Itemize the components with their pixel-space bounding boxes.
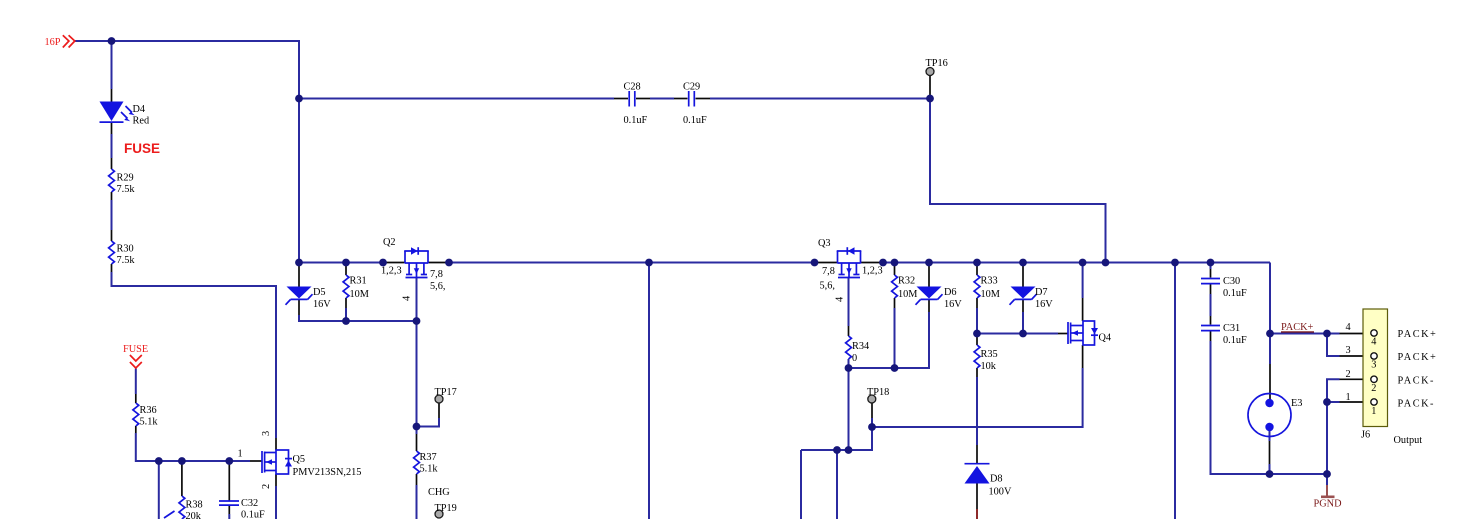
svg-text:C30: C30 (1223, 276, 1240, 287)
svg-text:R35: R35 (981, 349, 998, 360)
svg-text:5.1k: 5.1k (140, 417, 159, 428)
svg-text:C28: C28 (624, 82, 641, 93)
svg-text:10k: 10k (981, 361, 997, 372)
svg-text:5,6,: 5,6, (430, 281, 445, 292)
svg-text:0.1uF: 0.1uF (1223, 335, 1247, 346)
svg-text:10M: 10M (981, 289, 1000, 300)
svg-text:D7: D7 (1035, 287, 1048, 298)
svg-text:R29: R29 (117, 173, 134, 184)
svg-text:Output: Output (1394, 435, 1423, 446)
svg-text:10M: 10M (350, 289, 369, 300)
svg-text:C31: C31 (1223, 323, 1240, 334)
svg-text:7,8: 7,8 (430, 269, 443, 280)
svg-text:0.1uF: 0.1uF (683, 115, 707, 126)
svg-text:R38: R38 (186, 500, 203, 511)
svg-text:10M: 10M (898, 289, 917, 300)
svg-text:0.1uF: 0.1uF (241, 510, 265, 519)
svg-text:PACK-: PACK- (1398, 399, 1435, 410)
svg-text:16P: 16P (45, 37, 61, 48)
svg-text:C29: C29 (683, 82, 700, 93)
svg-text:0.1uF: 0.1uF (624, 115, 648, 126)
svg-text:4: 4 (402, 296, 413, 301)
svg-text:PMV213SN,215: PMV213SN,215 (293, 467, 362, 478)
svg-text:2: 2 (1346, 369, 1351, 380)
svg-text:16V: 16V (1035, 299, 1053, 310)
svg-text:Q4: Q4 (1099, 333, 1112, 344)
svg-text:CHG: CHG (428, 487, 450, 498)
svg-text:4: 4 (835, 297, 846, 302)
svg-text:D5: D5 (313, 287, 326, 298)
svg-text:TP17: TP17 (435, 387, 457, 398)
svg-text:3: 3 (261, 431, 272, 436)
svg-text:7,8: 7,8 (822, 266, 835, 277)
svg-text:1: 1 (238, 449, 243, 460)
svg-text:2: 2 (261, 484, 272, 489)
svg-text:FUSE: FUSE (123, 344, 148, 355)
svg-text:1,2,3: 1,2,3 (862, 266, 883, 277)
svg-text:3: 3 (1371, 360, 1376, 371)
svg-text:R36: R36 (140, 405, 157, 416)
svg-text:7.5k: 7.5k (117, 184, 136, 195)
svg-text:D6: D6 (944, 287, 957, 298)
svg-text:PACK+: PACK+ (1398, 352, 1438, 363)
svg-text:PACK+: PACK+ (1398, 329, 1438, 340)
svg-text:0: 0 (852, 353, 857, 364)
svg-text:J6: J6 (1361, 430, 1370, 441)
svg-text:E3: E3 (1291, 398, 1302, 409)
svg-text:4: 4 (1346, 322, 1351, 333)
svg-text:1,2,3: 1,2,3 (381, 266, 402, 277)
svg-text:D4: D4 (133, 104, 146, 115)
svg-text:D8: D8 (990, 474, 1003, 485)
svg-text:Q2: Q2 (383, 237, 396, 248)
svg-text:7.5k: 7.5k (117, 255, 136, 266)
svg-text:R32: R32 (898, 276, 915, 287)
svg-text:Q3: Q3 (818, 238, 831, 249)
svg-text:TP19: TP19 (435, 503, 457, 514)
svg-text:20k: 20k (186, 511, 202, 519)
svg-text:TP18: TP18 (867, 387, 889, 398)
svg-text:5,6,: 5,6, (820, 281, 835, 292)
svg-text:4: 4 (1371, 337, 1376, 348)
svg-text:3: 3 (1346, 345, 1351, 356)
svg-text:R33: R33 (981, 276, 998, 287)
svg-text:5.1k: 5.1k (420, 464, 439, 475)
svg-text:R34: R34 (852, 341, 869, 352)
svg-text:100V: 100V (989, 487, 1012, 498)
svg-text:Red: Red (133, 116, 150, 127)
svg-text:16V: 16V (944, 299, 962, 310)
svg-text:R37: R37 (420, 452, 437, 463)
svg-text:R31: R31 (350, 276, 367, 287)
svg-text:Q5: Q5 (293, 454, 306, 465)
svg-text:1: 1 (1371, 406, 1376, 417)
svg-text:R30: R30 (117, 244, 134, 255)
svg-text:TP16: TP16 (926, 58, 948, 69)
svg-text:C32: C32 (241, 498, 258, 509)
svg-text:PGND: PGND (1314, 499, 1343, 510)
svg-text:16V: 16V (313, 299, 331, 310)
svg-text:0.1uF: 0.1uF (1223, 288, 1247, 299)
svg-text:2: 2 (1371, 383, 1376, 394)
svg-text:1: 1 (1346, 392, 1351, 403)
svg-text:FUSE: FUSE (124, 141, 160, 156)
svg-text:PACK-: PACK- (1398, 376, 1435, 387)
